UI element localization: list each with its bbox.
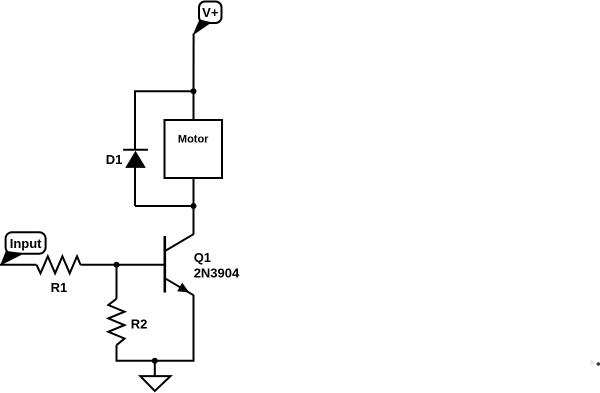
wire bottom rail diode to node	[135, 205, 194, 207]
svg-text:V+: V+	[202, 5, 219, 20]
wire R2 to bottom rail	[117, 345, 155, 361]
wire motor to bottom node	[193, 178, 195, 206]
wire node to R2	[116, 265, 118, 299]
wire node to collector	[193, 206, 195, 235]
power flag V+	[194, 2, 222, 35]
diode D1	[123, 150, 148, 206]
wire emitter to bottom rail	[155, 295, 194, 361]
resistor R2	[108, 299, 124, 345]
svg-text:R1: R1	[51, 280, 68, 295]
ground	[140, 361, 170, 391]
wire node to base	[117, 264, 165, 266]
label R1	[51, 280, 68, 295]
wire V+ to top node	[193, 34, 195, 92]
node bottom junction	[191, 203, 197, 209]
resistor R1	[37, 256, 81, 273]
stray cursor artifact	[590, 359, 600, 366]
node base junction	[114, 262, 120, 268]
wire top rail to diode branch	[135, 91, 194, 149]
label R2	[131, 316, 148, 331]
node top junction	[191, 88, 197, 94]
svg-text:Q1: Q1	[194, 250, 211, 265]
svg-text:Motor: Motor	[178, 133, 209, 145]
wire input to R1	[0, 264, 37, 266]
transistor Q1	[165, 234, 194, 295]
motor M1 (Motor box)	[165, 120, 223, 178]
svg-text:D1: D1	[106, 152, 123, 167]
label Q1 2N3904	[194, 250, 240, 281]
wire R1 to base node	[81, 264, 117, 266]
label D1	[106, 152, 123, 167]
svg-text:Input: Input	[10, 236, 42, 251]
wire top node to motor	[193, 91, 195, 120]
input flag Input	[1, 232, 46, 264]
svg-text:2N3904: 2N3904	[194, 266, 240, 281]
node ground junction	[152, 358, 158, 364]
svg-text:R2: R2	[131, 316, 148, 331]
